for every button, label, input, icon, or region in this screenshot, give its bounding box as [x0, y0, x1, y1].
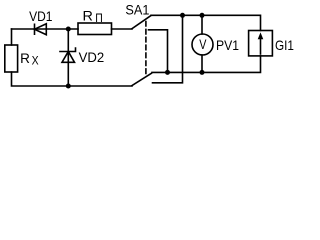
svg-text:PV1: PV1 [216, 37, 239, 53]
svg-text:SA1: SA1 [125, 2, 149, 18]
svg-text:GI1: GI1 [275, 37, 294, 53]
svg-text:R: R [20, 50, 30, 66]
svg-text:V: V [199, 37, 206, 52]
svg-text:П: П [95, 11, 103, 25]
svg-text:VD2: VD2 [79, 49, 105, 65]
svg-text:VD1: VD1 [29, 8, 53, 24]
svg-text:X: X [32, 54, 39, 68]
svg-text:R: R [83, 8, 93, 24]
